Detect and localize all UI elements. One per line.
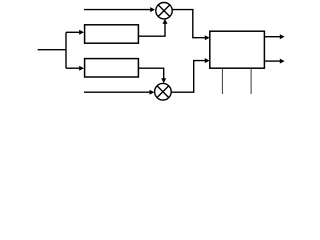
filter block F2 (bottom) [85, 59, 139, 77]
wire M2 output to modulator [171, 61, 205, 93]
arrow up into multiplier M1 [163, 19, 168, 24]
wire bottom filter output [138, 68, 163, 78]
arrow output 2 [280, 59, 285, 64]
multiplier M2 (bottom mixer) [155, 83, 172, 100]
wire carrier input top [84, 9, 150, 11]
arrow into modulator lower input [205, 58, 210, 63]
modulator block U1 [210, 31, 265, 68]
wire stub pin 1 [221, 68, 223, 94]
arrow down into multiplier M2 [161, 78, 166, 83]
wire output 2 [264, 60, 280, 62]
arrow into top filter [79, 30, 84, 35]
arrow into multiplier M2 left [150, 90, 155, 95]
wire top branch [66, 31, 80, 33]
wire input line [38, 49, 66, 51]
wire stub pin 2 [250, 68, 252, 94]
wire bottom branch [66, 67, 80, 69]
arrow into multiplier M1 left [150, 7, 155, 12]
wire output 1 [264, 36, 280, 38]
node branch junction [65, 32, 67, 68]
arrow output 1 [280, 34, 285, 39]
multiplier M1 (top mixer) [156, 3, 172, 19]
arrow into modulator upper input [205, 35, 210, 40]
wire M1 output to modulator [172, 10, 205, 38]
filter block F1 (top) [85, 25, 139, 43]
arrow into bottom filter [79, 66, 84, 71]
wire top filter output [138, 24, 165, 36]
wire carrier input bottom [84, 91, 150, 93]
